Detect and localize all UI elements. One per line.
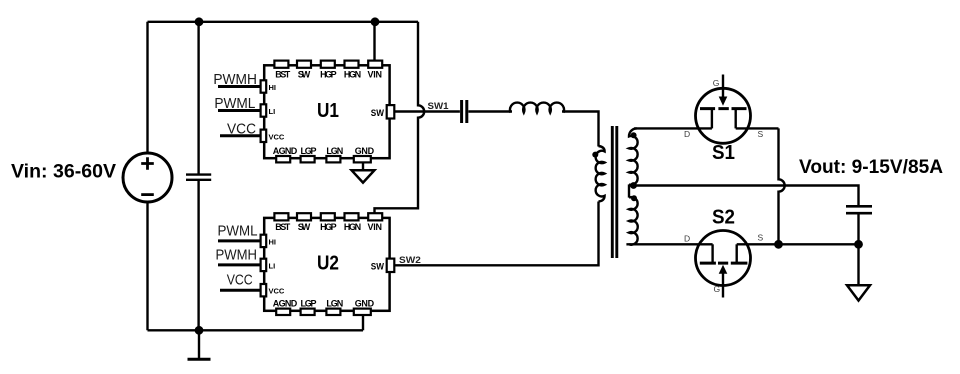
wire PWMH to U2 LI [218,263,261,266]
svg-text:PWMH: PWMH [216,246,258,263]
wire C1 column top [197,22,199,175]
wire Vout rail from center tap [629,186,859,206]
svg-text:LI: LI [269,261,276,270]
capacitor C2 series [462,100,467,123]
wire T1 center tap segment [628,184,630,197]
wire PWML to U2 HI [218,239,261,242]
pin U1 AGND [276,156,290,162]
svg-text:HI: HI [269,237,277,246]
svg-text:S: S [758,233,764,243]
pin U1 GND [354,156,371,162]
wire S1 source [736,127,779,129]
transistor S2 circle [696,231,751,286]
transformer T1 secondary bottom winding [629,197,638,245]
svg-text:Vin: 36-60V: Vin: 36-60V [11,161,116,183]
svg-text:VCC: VCC [269,132,285,141]
svg-text:Vout: 9-15V/85A: Vout: 9-15V/85A [799,156,943,178]
voltage source V1 Vin [123,153,172,202]
ground right triangle [847,285,870,300]
pin U1 BST [274,61,288,68]
wire top rail [148,21,419,23]
pin U2 LI [261,259,267,271]
svg-text:S1: S1 [712,141,735,164]
S1 channel bars [700,107,747,110]
svg-text:HGP: HGP [320,222,337,232]
pin U1 LI [261,104,267,116]
S2 gate arrow [719,265,728,274]
pin U2 SW top [297,213,311,220]
S2 left post [711,244,713,263]
pin U2 HGP [321,213,335,220]
transformer T1 core [612,126,617,258]
svg-text:VIN: VIN [368,70,383,80]
op-amp U2 body [264,218,389,311]
svg-text:SW: SW [298,70,311,80]
svg-text:LI: LI [269,107,276,116]
wire left branch bottom [146,202,148,330]
svg-text:BST: BST [275,70,291,80]
wire C1 column bottom [197,180,199,330]
wire S1 source down with hop over Vout rail [779,128,785,244]
svg-text:SW: SW [298,222,311,232]
svg-text:PWML: PWML [218,222,258,239]
pin U2 VCC [261,284,267,296]
transformer T1 secondary top winding [629,128,638,184]
pin U1 LGP [301,156,315,162]
svg-text:GND: GND [355,146,375,156]
S1 gate wire [722,75,724,98]
svg-text:SW1: SW1 [428,101,450,112]
svg-text:LGN: LGN [326,299,343,309]
svg-text:HI: HI [269,83,277,92]
svg-text:U1: U1 [317,99,339,122]
T1 secondary bottom phase dot [631,195,637,201]
pin U1 HI [261,80,267,92]
pin U2 BST [274,213,288,220]
pin U1 LGN [326,156,340,162]
svg-text:G: G [714,284,721,294]
svg-text:VCC: VCC [269,287,285,296]
S1 left post [711,110,713,129]
wire U1 SW to C2 [395,110,460,112]
wire U2 GND to bottom rail [362,315,364,330]
label U1 top pin names [275,70,382,80]
pin U1 VIN [368,61,382,68]
pin U1 HGN [345,61,359,68]
svg-text:HGP: HGP [320,70,337,80]
wire PWML to U1 LI [218,109,261,112]
wire U2 SW to T1 primary (SW2 net) [395,202,599,266]
svg-text:BST: BST [275,222,291,232]
svg-text:SW: SW [371,108,385,118]
inductor L1 [510,103,564,113]
pin U2 LGN [326,309,340,315]
pin U1 SW right [387,105,395,118]
wire C2 to L1 [468,110,512,112]
pin U2 HI [261,235,267,247]
svg-text:U2: U2 [317,252,339,275]
T1 secondary top phase dot [631,132,637,138]
svg-text:HGN: HGN [344,222,361,232]
capacitor C3 output [846,206,872,213]
wire U1 VIN to top rail [373,22,375,61]
node junction output cap [854,240,863,249]
svg-text:VCC: VCC [227,272,253,289]
node junction center tap [630,182,637,189]
wire T1 top to S1 drain [634,127,712,129]
pin U1 VCC [261,130,267,142]
ground U1 GND [362,162,364,170]
wire right vertical with hop over SW1 and jog to U2 VIN [375,22,425,214]
node junction S1-S2 source [774,240,783,249]
pin U1 HGP [321,61,335,68]
wire VCC to U1 VCC [220,134,261,137]
svg-text:AGND: AGND [273,146,298,156]
label U2 top pin names [275,222,382,232]
svg-text:S: S [758,129,764,139]
wire left branch top (Vin to top rail) [146,22,148,154]
node junction top rail at U1 VIN [371,17,380,26]
node junction top rail at C1 [195,17,204,26]
pin U2 GND [354,309,371,315]
svg-text:LGP: LGP [300,299,316,309]
svg-text:HGN: HGN [344,70,361,80]
wire S2 source [737,243,859,245]
wire VCC to U2 VCC [220,289,261,292]
pin U2 VIN [368,213,382,220]
node junction bottom rail [195,326,204,335]
wire T1 bottom to S2 drain [626,243,712,245]
op-amp U1 body [264,65,389,158]
svg-text:G: G [713,78,720,88]
S1 gate arrow [719,97,728,106]
S2 channel bars [700,262,748,265]
transistor S1 circle [696,88,751,143]
transformer T1 primary winding [596,146,605,202]
svg-text:AGND: AGND [273,299,298,309]
ground left (bar type) [198,330,200,359]
S2 right post [736,244,738,263]
pin U2 AGND [276,309,290,315]
svg-text:D: D [684,129,690,139]
label U2 left pin names [269,237,285,295]
pin U2 LGP [301,309,315,315]
wire bottom rail [148,329,364,331]
svg-text:S2: S2 [712,206,735,229]
pin U1 SW top [297,61,311,68]
pin U2 SW right [387,259,395,272]
pin U2 HGN [345,213,359,220]
S2 gate wire [722,274,724,298]
svg-text:LGP: LGP [300,146,316,156]
T1 primary phase dot [592,152,598,158]
label U2 bottom pin names [273,299,375,309]
svg-text:GND: GND [355,299,375,309]
label U1 bottom pin names [273,146,375,156]
svg-text:SW: SW [371,261,385,271]
label U1 left pin names [269,83,285,141]
wire PWMH to U1 HI [218,85,261,88]
capacitor C1 input [186,175,211,180]
svg-text:SW2: SW2 [399,255,421,266]
svg-text:LGN: LGN [326,146,343,156]
S1 right post [735,110,737,129]
wire L1 to T1 primary [562,112,599,147]
wire C3 bottom to ground [857,214,859,284]
svg-text:VIN: VIN [368,222,383,232]
svg-text:D: D [684,233,690,243]
